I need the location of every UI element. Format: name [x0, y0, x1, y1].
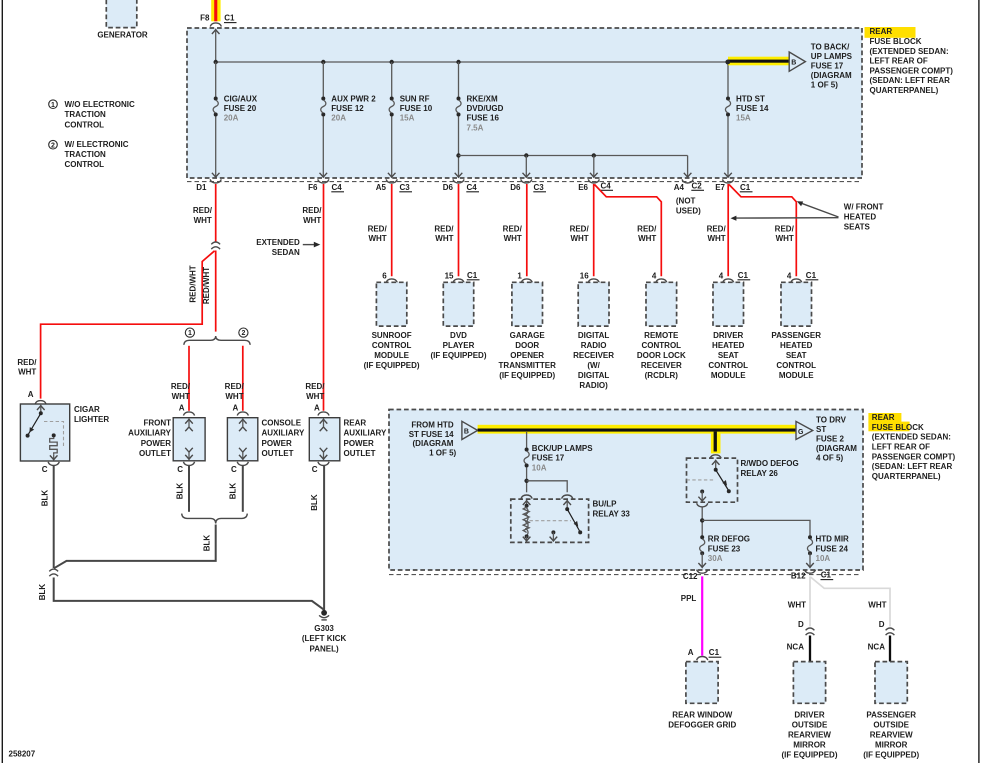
svg-text:PPL: PPL: [681, 594, 697, 603]
splice break on D1 wire: [211, 242, 220, 249]
note w/ front heated seats: [731, 201, 884, 232]
svg-text:OPENER: OPENER: [510, 351, 544, 360]
svg-text:LEFT REAR OF: LEFT REAR OF: [872, 443, 930, 452]
label RED/WHT D6-C3: [503, 224, 523, 243]
svg-text:C1: C1: [467, 271, 478, 280]
option 2 marker: [239, 328, 248, 337]
connector front outlet C: [183, 462, 194, 466]
svg-text:C4: C4: [467, 183, 478, 192]
svg-text:D: D: [879, 620, 885, 629]
svg-text:RELAY 33: RELAY 33: [593, 510, 631, 519]
cigar lighter box: [20, 404, 69, 461]
fuse block (top) box: [187, 28, 862, 178]
svg-text:RELAY 26: RELAY 26: [741, 469, 779, 478]
svg-text:FUSE 14: FUSE 14: [736, 104, 769, 113]
svg-text:1: 1: [517, 272, 522, 281]
svg-text:C1: C1: [821, 571, 832, 580]
fuse BCK/UP LAMPS FUSE 17: [524, 444, 593, 473]
connector garage pin 1: [517, 272, 532, 283]
svg-text:BLK: BLK: [203, 535, 212, 552]
svg-text:EXTENDED: EXTENDED: [256, 238, 300, 247]
label RED/WHT passenger: [775, 224, 795, 243]
wire to bck/up lamps fuse: [526, 432, 528, 448]
svg-text:A: A: [233, 403, 239, 412]
svg-text:(IF EQUIPPED): (IF EQUIPPED): [863, 751, 919, 760]
driver heated seat control module: [713, 282, 744, 326]
svg-text:FRONT: FRONT: [143, 419, 171, 428]
label RED/WHT rcdlr: [637, 224, 657, 243]
svg-text:AUXILIARY: AUXILIARY: [262, 429, 305, 438]
svg-text:WHT: WHT: [306, 392, 324, 401]
node branch-3: [592, 153, 596, 157]
label bu/lp relay 33: [593, 500, 631, 519]
svg-text:RED/: RED/: [775, 224, 795, 233]
passenger outside rearview mirror: [875, 662, 907, 704]
note to drv st fuse 2: [816, 416, 857, 463]
svg-text:PASSENGER: PASSENGER: [866, 710, 916, 719]
svg-text:REAR: REAR: [870, 27, 893, 36]
legend note 1: [49, 100, 58, 109]
cigar lighter internals: [26, 406, 64, 460]
svg-text:TRANSMITTER: TRANSMITTER: [499, 361, 557, 370]
svg-text:BLK: BLK: [41, 490, 50, 507]
svg-text:OUTSIDE: OUTSIDE: [873, 720, 909, 729]
svg-text:PASSENGER COMPT): PASSENGER COMPT): [870, 66, 954, 75]
wire rr defog to C12: [698, 553, 706, 567]
svg-text:DRIVER: DRIVER: [713, 331, 743, 340]
svg-text:WHT: WHT: [435, 234, 453, 243]
wire thick yellow drop to relay: [711, 432, 721, 454]
wire RED/WHT option1 to front outlet: [188, 346, 190, 411]
svg-text:MODULE: MODULE: [779, 371, 814, 380]
label driver heated seat: [708, 331, 748, 380]
label RED/WHT A5: [368, 224, 388, 243]
svg-text:A: A: [28, 390, 34, 399]
svg-text:FUSE 17: FUSE 17: [811, 62, 844, 71]
svg-text:HEATED: HEATED: [712, 341, 745, 350]
wire F8 red/yellow from generator: [211, 0, 220, 21]
svg-text:WHT: WHT: [194, 216, 212, 225]
wire thick yellow to back/up lamps: [727, 57, 789, 66]
svg-text:(NOT: (NOT: [676, 196, 696, 205]
svg-text:4: 4: [719, 272, 724, 281]
wire RED/WHT D6-C3 to garage: [526, 184, 528, 276]
svg-text:POWER: POWER: [141, 439, 171, 448]
rear window defogger grid: [686, 662, 718, 704]
fuse CIG/AUX FUSE 20: [213, 94, 258, 122]
svg-text:QUARTERPANEL): QUARTERPANEL): [870, 86, 939, 95]
label passenger heated seat: [771, 331, 821, 380]
r/wdo relay output pin: [698, 490, 706, 502]
svg-text:SEAT: SEAT: [718, 351, 739, 360]
svg-text:DEFOGGER GRID: DEFOGGER GRID: [668, 720, 736, 729]
svg-text:AUXILIARY: AUXILIARY: [344, 429, 387, 438]
svg-text:MIRROR: MIRROR: [875, 741, 908, 750]
svg-text:SEDAN: SEDAN: [272, 248, 300, 257]
bu/lp relay coil: [523, 501, 531, 541]
svg-text:GARAGE: GARAGE: [510, 331, 546, 340]
svg-text:HEATED: HEATED: [780, 341, 813, 350]
svg-text:BLK: BLK: [38, 584, 47, 601]
wire drop D1: [212, 62, 220, 177]
connector console outlet A: [237, 412, 248, 416]
svg-text:OUTLET: OUTLET: [262, 449, 294, 458]
svg-text:CONTROL: CONTROL: [65, 120, 105, 129]
svg-text:6: 6: [382, 272, 387, 281]
svg-text:W/O ELECTRONIC: W/O ELECTRONIC: [65, 100, 135, 109]
splice break cigar blk: [49, 569, 58, 576]
svg-text:FUSE 16: FUSE 16: [467, 114, 500, 123]
digital radio receiver: [578, 282, 609, 326]
svg-text:CONTROL: CONTROL: [642, 341, 682, 350]
svg-text:FUSE 24: FUSE 24: [816, 544, 849, 553]
svg-text:A5: A5: [376, 183, 387, 192]
svg-text:PASSENGER COMPT): PASSENGER COMPT): [872, 452, 956, 461]
r/wdo relay switch: [712, 460, 731, 493]
svg-text:7.5A: 7.5A: [467, 123, 484, 132]
svg-text:CONTROL: CONTROL: [65, 160, 105, 169]
svg-text:REARVIEW: REARVIEW: [788, 731, 831, 740]
svg-text:SEATS: SEATS: [844, 223, 871, 232]
connector rear outlet C: [318, 462, 329, 466]
label console auxiliary power outlet: [262, 419, 305, 458]
svg-text:WHT: WHT: [368, 234, 386, 243]
right page border: [978, 0, 980, 763]
svg-text:RED/: RED/: [193, 206, 213, 215]
svg-text:W/ FRONT: W/ FRONT: [844, 203, 884, 212]
svg-text:D1: D1: [196, 183, 207, 192]
svg-text:BU/LP: BU/LP: [593, 500, 618, 509]
branch wire: [459, 155, 688, 157]
svg-text:4: 4: [652, 272, 657, 281]
svg-text:RED/: RED/: [225, 382, 245, 391]
node branch junction: [456, 153, 460, 157]
svg-text:SUN RF: SUN RF: [400, 94, 430, 103]
svg-text:E6: E6: [578, 183, 588, 192]
wire drop F6: [320, 62, 328, 177]
label rear window defogger grid: [668, 710, 736, 729]
svg-text:CIG/AUX: CIG/AUX: [224, 94, 258, 103]
svg-text:MIRROR: MIRROR: [793, 741, 826, 750]
svg-text:C: C: [312, 465, 318, 474]
svg-text:RED/WHT: RED/WHT: [202, 267, 211, 304]
connector B12 C1: [791, 570, 833, 581]
svg-text:G: G: [798, 429, 804, 436]
wire RED/WHT E6 branch to rcdlr: [595, 185, 662, 277]
svg-text:C1: C1: [738, 271, 749, 280]
svg-text:C: C: [177, 465, 183, 474]
pin C1: [224, 14, 237, 23]
connector rear outlet A: [318, 412, 329, 416]
svg-text:RR DEFOG: RR DEFOG: [708, 535, 750, 544]
connector A5 C3: [376, 179, 412, 191]
wire RED/WHT option2 to console outlet: [242, 346, 244, 411]
connector console outlet C: [237, 462, 248, 466]
svg-text:C4: C4: [601, 181, 612, 190]
svg-text:15: 15: [445, 272, 454, 281]
svg-text:(IF EQUIPPED): (IF EQUIPPED): [781, 751, 837, 760]
label RED/WHT E7: [707, 224, 727, 243]
arrow B to back/up lamps: [725, 60, 730, 65]
connector sunroof pin 6: [382, 272, 397, 283]
svg-text:D6: D6: [443, 183, 454, 192]
rear fuse block (lower) box: [389, 410, 863, 571]
svg-text:2: 2: [51, 142, 55, 149]
connector D1: [196, 179, 221, 191]
svg-text:BLK: BLK: [310, 494, 319, 511]
svg-text:GENERATOR: GENERATOR: [97, 31, 148, 40]
front auxiliary power outlet: [173, 418, 205, 461]
rear auxiliary power outlet: [309, 418, 340, 461]
svg-text:CONTROL: CONTROL: [776, 361, 816, 370]
label sunroof control module: [364, 331, 420, 370]
svg-text:WHT: WHT: [18, 368, 36, 377]
remote control door lock receiver: [646, 282, 677, 326]
svg-text:DIGITAL: DIGITAL: [578, 331, 610, 340]
svg-text:(SEDAN: LEFT REAR: (SEDAN: LEFT REAR: [870, 76, 951, 85]
wire drop E6: [590, 156, 598, 178]
connector A4 C2 not used: [674, 179, 704, 215]
svg-text:1: 1: [51, 102, 55, 109]
svg-text:RED/: RED/: [302, 206, 322, 215]
label rcdlr: [637, 331, 686, 380]
svg-text:WHT: WHT: [868, 600, 886, 609]
svg-text:W/ ELECTRONIC: W/ ELECTRONIC: [65, 140, 129, 149]
connector relay coil: [521, 495, 532, 499]
note extended sedan: [256, 238, 320, 257]
svg-text:D6: D6: [510, 183, 521, 192]
dvd player: [443, 282, 473, 326]
connector driver mirror D: [806, 628, 815, 635]
svg-text:LEFT REAR OF: LEFT REAR OF: [870, 57, 928, 66]
svg-text:NCA: NCA: [787, 643, 805, 652]
svg-text:B: B: [791, 59, 796, 66]
connector defogger C1: [697, 648, 722, 660]
left page border: [1, 0, 3, 763]
svg-text:B: B: [464, 429, 469, 436]
svg-text:(EXTENDED SEDAN:: (EXTENDED SEDAN:: [872, 433, 951, 442]
svg-text:HTD ST: HTD ST: [736, 94, 765, 103]
connector F8 C1: [210, 23, 221, 27]
svg-text:NCA: NCA: [868, 643, 886, 652]
bus wire: [216, 61, 728, 63]
wire RED/WHT A5 to sunroof: [391, 184, 393, 276]
note rear fuse block (top): [865, 27, 954, 95]
wire NCA driver: [809, 636, 811, 662]
node bus-3: [390, 60, 394, 64]
svg-text:(IF EQUIPPED): (IF EQUIPPED): [364, 361, 420, 370]
svg-text:(IF EQUIPPED): (IF EQUIPPED): [499, 371, 555, 380]
svg-text:DOOR: DOOR: [515, 341, 539, 350]
svg-text:(EXTENDED SEDAN:: (EXTENDED SEDAN:: [870, 47, 949, 56]
svg-text:SUNROOF: SUNROOF: [372, 331, 412, 340]
svg-text:R/WDO DEFOG: R/WDO DEFOG: [741, 459, 799, 468]
svg-text:PASSENGER: PASSENGER: [771, 331, 821, 340]
connector driver seat pin 4 C1: [719, 271, 750, 283]
wire RED/WHT below break: [215, 251, 217, 332]
svg-text:FUSE 23: FUSE 23: [708, 544, 741, 553]
wire below fuse 17: [526, 467, 528, 492]
label front auxiliary power outlet: [128, 419, 171, 458]
svg-text:(DIAGRAM: (DIAGRAM: [811, 71, 852, 80]
connector dvd pin 15 C1: [445, 271, 480, 283]
svg-text:OUTLET: OUTLET: [344, 449, 376, 458]
join brace front/console: [182, 514, 248, 524]
connector F6 C4: [308, 179, 344, 191]
wire relay output: [701, 508, 703, 537]
svg-text:20A: 20A: [224, 114, 239, 123]
svg-text:WHT: WHT: [776, 234, 794, 243]
svg-text:C12: C12: [683, 572, 698, 581]
connector passenger mirror D: [886, 628, 895, 635]
svg-text:FUSE 12: FUSE 12: [331, 104, 364, 113]
svg-text:DIGITAL: DIGITAL: [578, 371, 610, 380]
bu/lp relay output pin: [550, 530, 558, 541]
svg-text:C: C: [42, 465, 48, 474]
label rear auxiliary power outlet: [344, 419, 387, 458]
generator box: [106, 0, 137, 28]
fuse HTD ST FUSE 14: [725, 94, 769, 122]
svg-text:PANEL): PANEL): [310, 645, 340, 654]
svg-text:FROM HTD: FROM HTD: [411, 420, 453, 429]
svg-text:F6: F6: [308, 183, 318, 192]
svg-text:RADIO: RADIO: [581, 341, 607, 350]
svg-text:TO DRV: TO DRV: [816, 416, 847, 425]
svg-text:USED): USED): [676, 207, 701, 216]
svg-text:REAR: REAR: [344, 419, 367, 428]
svg-text:C3: C3: [400, 183, 411, 192]
svg-text:15A: 15A: [736, 114, 751, 123]
svg-text:(DIAGRAM: (DIAGRAM: [413, 439, 454, 448]
note from htd st fuse 14: [409, 420, 457, 457]
svg-text:4 OF 5): 4 OF 5): [816, 453, 843, 462]
svg-text:OUTLET: OUTLET: [139, 449, 171, 458]
connector r/wdo relay top: [710, 455, 721, 459]
svg-text:AUX PWR 2: AUX PWR 2: [331, 94, 376, 103]
svg-text:RED/: RED/: [305, 382, 325, 391]
svg-text:C2: C2: [692, 181, 703, 190]
svg-text:ST FUSE 14: ST FUSE 14: [409, 430, 454, 439]
passenger heated seat control module: [781, 282, 812, 326]
node bus-4: [456, 60, 460, 64]
garage door opener transmitter: [512, 282, 543, 326]
node bus-5: [726, 60, 730, 64]
wire RED/WHT F6 to rear outlet: [323, 184, 325, 411]
svg-text:FUSE 17: FUSE 17: [532, 454, 565, 463]
svg-text:C3: C3: [534, 183, 545, 192]
svg-text:DOOR LOCK: DOOR LOCK: [637, 351, 686, 360]
wire from F8 into fuse block: [212, 30, 220, 62]
svg-text:OUTSIDE: OUTSIDE: [792, 720, 828, 729]
svg-text:RADIO): RADIO): [579, 381, 608, 390]
arrow G to drv st fuse: [796, 421, 813, 439]
node branch-2: [524, 153, 528, 157]
svg-text:(DIAGRAM: (DIAGRAM: [816, 444, 857, 453]
svg-text:F8: F8: [200, 14, 210, 23]
ground G303: [319, 610, 329, 620]
svg-text:C1: C1: [224, 14, 235, 23]
svg-text:FUSE 10: FUSE 10: [400, 104, 433, 113]
connector E6 C4: [578, 179, 613, 191]
svg-text:RED/: RED/: [368, 224, 388, 233]
svg-text:TRACTION: TRACTION: [65, 110, 107, 119]
svg-text:C1: C1: [709, 648, 720, 657]
svg-text:(LEFT KICK: (LEFT KICK: [302, 634, 347, 643]
svg-text:AUXILIARY: AUXILIARY: [128, 429, 171, 438]
connector digital radio pin 16: [580, 272, 600, 283]
wire BLK console outlet: [242, 466, 244, 512]
wire RED/WHT D6 to dvd: [458, 184, 460, 276]
svg-text:RED/: RED/: [570, 224, 590, 233]
svg-text:RECEIVER: RECEIVER: [573, 351, 614, 360]
sunroof control module: [376, 282, 406, 326]
svg-text:ST: ST: [816, 425, 826, 434]
svg-text:FUSE BLOCK: FUSE BLOCK: [872, 423, 924, 432]
svg-text:DVD: DVD: [450, 331, 467, 340]
wire branch to relay switch: [527, 481, 568, 493]
svg-text:16: 16: [580, 272, 589, 281]
r/wdo relay link dashed: [687, 479, 714, 481]
svg-text:TRACTION: TRACTION: [65, 150, 107, 159]
svg-text:D: D: [798, 620, 804, 629]
node bus-1: [214, 60, 218, 64]
connector passenger seat pin 4 C1: [787, 271, 818, 283]
wire htd mir to B12: [806, 553, 814, 567]
svg-text:REAR WINDOW: REAR WINDOW: [672, 710, 732, 719]
svg-text:RED/: RED/: [503, 224, 523, 233]
svg-text:CONTROL: CONTROL: [708, 361, 748, 370]
wire drop D6-C3: [523, 156, 531, 178]
svg-text:C4: C4: [332, 183, 343, 192]
svg-text:4: 4: [787, 272, 792, 281]
fuse block bottom inner dashed line: [187, 181, 862, 183]
note to back/up lamps: [811, 43, 853, 90]
label r/wdo defog relay 26: [741, 459, 799, 478]
wire BLK front outlet: [188, 466, 190, 512]
label cigar lighter: [74, 405, 109, 424]
svg-text:HTD MIR: HTD MIR: [816, 535, 850, 544]
svg-text:POWER: POWER: [262, 439, 292, 448]
label passenger outside rearview mirror: [863, 710, 919, 759]
label RED/WHT D6: [434, 224, 454, 243]
fuse RKE/XM DVD/UGD FUSE 16: [456, 94, 504, 132]
bu/lp relay switch: [563, 501, 582, 535]
svg-text:RED/: RED/: [171, 382, 191, 391]
svg-text:QUARTERPANEL): QUARTERPANEL): [872, 472, 941, 481]
label RED/WHT E6: [570, 224, 590, 243]
svg-text:RED/: RED/: [434, 224, 454, 233]
svg-text:DVD/UGD: DVD/UGD: [467, 104, 504, 113]
wire drop A5: [388, 62, 396, 177]
svg-text:B12: B12: [791, 571, 806, 580]
svg-text:1: 1: [188, 330, 192, 337]
svg-text:(IF EQUIPPED): (IF EQUIPPED): [430, 351, 486, 360]
note rear fuse block (lower): [868, 413, 955, 481]
svg-text:2: 2: [241, 330, 245, 337]
driver outside rearview mirror: [793, 662, 825, 704]
svg-text:UP LAMPS: UP LAMPS: [811, 52, 853, 61]
fuse AUX PWR 2 FUSE 12: [321, 94, 377, 122]
svg-text:SEAT: SEAT: [786, 351, 807, 360]
lower box bottom inner dashed line: [389, 574, 861, 576]
connector relay switch: [562, 495, 573, 499]
svg-text:BLK: BLK: [229, 483, 238, 500]
svg-text:PLAYER: PLAYER: [443, 341, 475, 350]
label RED/WHT F6 wire: [302, 206, 322, 225]
connector r/wdo relay bottom: [697, 503, 708, 507]
svg-text:FUSE 2: FUSE 2: [816, 434, 845, 443]
svg-text:C1: C1: [740, 183, 751, 192]
